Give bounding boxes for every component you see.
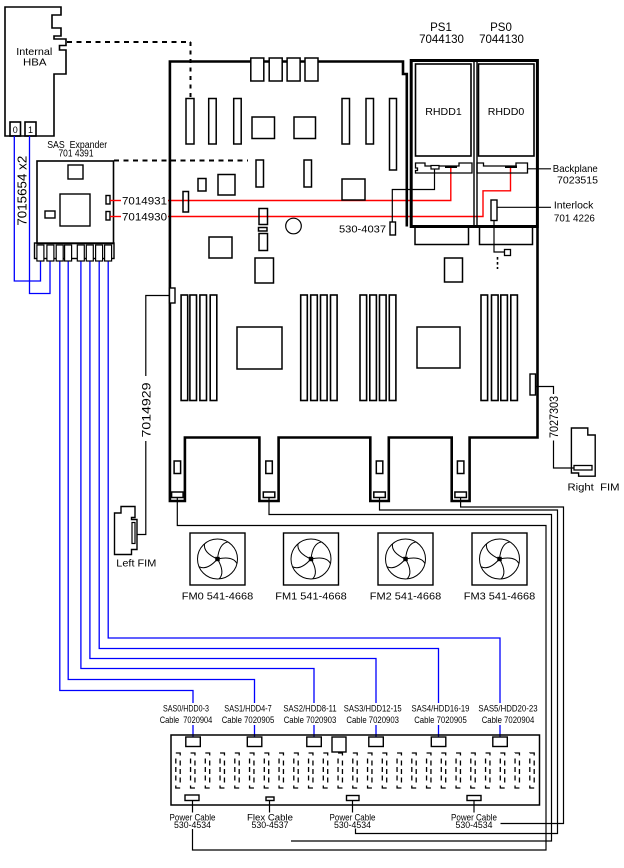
- fan FM3: [472, 533, 527, 585]
- drive slot column 19 (dashed): [456, 753, 460, 788]
- connector 7014929 on mobo edge: [170, 288, 176, 303]
- SAS0 cable label: [160, 704, 213, 726]
- foot 4 component: [457, 461, 464, 474]
- drive slot column 24 (dashed): [530, 753, 534, 788]
- black wire foot1 to power cable 1: [177, 498, 546, 851]
- blue wire expander pin5 to SAS2 connector: [81, 262, 314, 704]
- expander comb pin 1: [37, 245, 44, 261]
- SAS3 connector: [369, 737, 384, 747]
- svg-text:0: 0: [13, 125, 18, 135]
- expander connector J1 (7014931): [106, 196, 110, 205]
- svg-text:1: 1: [28, 125, 33, 135]
- black wire foot4 to power cable 4: [461, 498, 564, 824]
- drive slot column 23 (dashed): [515, 753, 519, 788]
- slot I: [256, 160, 264, 187]
- svg-text:Cable 7020905: Cable 7020905: [222, 715, 275, 725]
- DIMM slot group4-4: [511, 295, 518, 401]
- SAS1 cable label: [222, 704, 275, 726]
- left FIM module: [115, 507, 138, 555]
- drive slot column 8 (dashed): [294, 753, 298, 788]
- SAS3 cable label: [344, 704, 402, 726]
- drive slot column 3 (dashed): [220, 753, 224, 788]
- drive slot column 21 (dashed): [486, 753, 490, 788]
- wire 7014929 to left FIM: [146, 296, 170, 377]
- dashed line expander to motherboard: [114, 160, 248, 162]
- expander left component: [45, 211, 55, 218]
- svg-text:7014929: 7014929: [139, 382, 153, 437]
- RHDD0 tray: [477, 163, 528, 173]
- svg-text:530-4534: 530-4534: [174, 820, 211, 830]
- RHDD1 tray connector (white): [431, 166, 439, 170]
- svg-text:Interlock: Interlock: [554, 200, 594, 212]
- PSU foot box left: [415, 227, 469, 245]
- RHDD1 tray: [416, 163, 473, 173]
- SAS4 cable label: [412, 704, 470, 726]
- svg-text:PS1: PS1: [430, 22, 452, 34]
- svg-text:7014931: 7014931: [122, 196, 167, 208]
- SAS5 cable label: [478, 704, 537, 726]
- RHDD0 drive: [479, 64, 535, 156]
- expander comb pin 8: [105, 245, 112, 261]
- PS1 label: [419, 22, 464, 46]
- drive slot column 17 (dashed): [427, 753, 431, 788]
- disk backplane box: [171, 735, 540, 805]
- vertical slot U6: [390, 99, 397, 171]
- blue wire HBA port0 to expander pin1: [14, 136, 40, 281]
- chip N: [342, 179, 365, 200]
- motherboard outline: [169, 60, 538, 501]
- svg-text:SAS0/HDD0-3: SAS0/HDD0-3: [163, 704, 209, 714]
- label Flex Cable 530-4537: [247, 813, 293, 831]
- chip L2: [209, 237, 232, 258]
- drive slot column 7 (dashed): [279, 753, 283, 788]
- blue wire expander pin6 to SAS3 connector: [90, 262, 376, 704]
- expander comb pin 4: [65, 245, 72, 261]
- backplane aux component: [332, 737, 346, 752]
- DIMM slot group2-4: [331, 295, 338, 401]
- connector 530-4037: [390, 222, 396, 235]
- drive slot column 5 (dashed): [250, 753, 254, 788]
- svg-text:Cable 7020903: Cable 7020903: [284, 715, 337, 725]
- CPU 1: [237, 327, 282, 369]
- drive slot column 6 (dashed): [264, 753, 268, 788]
- svg-text:HBA: HBA: [23, 57, 47, 69]
- internal HBA card outline: [5, 7, 66, 136]
- drive slot column 14 (dashed): [382, 753, 386, 788]
- blue wire SAS0 connector drop: [192, 725, 194, 740]
- flex cable connector: [266, 797, 274, 801]
- expander comb pin 5: [77, 245, 84, 261]
- DIMM slot group3-1: [360, 295, 367, 401]
- drive slot column 12 (dashed): [353, 753, 357, 788]
- drive slot column 15 (dashed): [397, 753, 401, 788]
- DIMM slot group1-4: [210, 295, 217, 401]
- left FIM slot: [132, 523, 135, 544]
- drive slot column 16 (dashed): [412, 753, 416, 788]
- svg-text:SAS2/HDD8-11: SAS2/HDD8-11: [283, 704, 336, 714]
- svg-text:7015654 x2: 7015654 x2: [14, 156, 29, 226]
- component column rect 1: [259, 209, 268, 225]
- expander chip large: [60, 194, 90, 226]
- svg-text:530-4534: 530-4534: [334, 820, 371, 830]
- DIMM slot group2-3: [321, 295, 328, 401]
- RHDD1 tray connector (black bar): [445, 166, 457, 169]
- svg-text:530-4037: 530-4037: [339, 224, 386, 236]
- blue wire expander pin4 to SAS1 connector: [68, 262, 254, 704]
- blue wire HBA port1 to expander pin2: [30, 136, 51, 294]
- svg-text:Backplane: Backplane: [553, 163, 598, 175]
- svg-text:701 4391: 701 4391: [59, 149, 94, 160]
- component column rect 2: [259, 228, 268, 232]
- red wire 7014931 (expander J1 to RHDD1 backplane): [110, 200, 121, 202]
- svg-text:SAS4/HDD16-19: SAS4/HDD16-19: [412, 704, 470, 714]
- internal HBA label: [16, 46, 52, 69]
- interlock label: [554, 200, 595, 225]
- red wire 7014930 (expander J2 to RHDD0 backplane): [110, 216, 121, 218]
- right FIM module: [571, 428, 595, 476]
- svg-text:7014930: 7014930: [122, 212, 167, 224]
- drive slot column 0 (dashed): [176, 753, 180, 788]
- blue wire SAS5 connector drop: [499, 725, 501, 740]
- SAS0 connector: [186, 737, 201, 747]
- top edge connector 2: [269, 58, 282, 81]
- DIMM slot group1-1: [181, 295, 188, 401]
- foot 2 connector: [263, 492, 275, 498]
- expander comb pin 3: [56, 245, 63, 261]
- wire 7027303 to right FIM: [536, 387, 554, 395]
- slot J: [304, 160, 312, 187]
- top edge connector 4: [305, 58, 318, 81]
- DIMM slot group1-2: [190, 295, 197, 401]
- svg-text:FM0 541-4668: FM0 541-4668: [182, 591, 254, 603]
- drive slot column 4 (dashed): [235, 753, 239, 788]
- svg-text:FM3 541-4668: FM3 541-4668: [464, 591, 536, 603]
- svg-text:701 4226: 701 4226: [554, 213, 595, 225]
- black wire foot3 to power cable 3: [356, 498, 558, 834]
- fan FM0: [190, 533, 245, 585]
- interlock dashed stub: [497, 257, 499, 269]
- foot 3 component: [376, 461, 383, 474]
- fan FM1: [284, 533, 339, 585]
- PS0 label: [479, 22, 524, 46]
- blue wire SAS2 connector drop: [313, 725, 315, 740]
- small component K: [198, 179, 206, 192]
- drive slot column 9 (dashed): [309, 753, 313, 788]
- vertical slot U4: [342, 99, 350, 145]
- vertical slot U2: [209, 99, 217, 145]
- expander comb connector body: [35, 243, 115, 259]
- drive slot column 11 (dashed): [338, 753, 342, 788]
- chip right area: [445, 258, 463, 282]
- vertical slot U1: [186, 99, 194, 145]
- interlock wire: [494, 221, 504, 253]
- SAS expander label: [47, 140, 108, 160]
- drive slot column 22 (dashed): [500, 753, 504, 788]
- dashed wire HBA to motherboard (vertical drop): [190, 42, 192, 98]
- HBA port 0: [10, 122, 21, 136]
- expander comb pin 7: [96, 245, 103, 261]
- blue wire SAS4 connector drop: [438, 725, 440, 740]
- CPU 2: [417, 327, 460, 368]
- foot 4 connector: [455, 492, 467, 498]
- backplane label: [553, 163, 598, 187]
- expander comb pin 2: [47, 245, 54, 261]
- SAS4 connector: [431, 737, 446, 747]
- svg-text:SAS5/HDD20-23: SAS5/HDD20-23: [478, 704, 537, 714]
- DIMM slot group4-3: [501, 295, 508, 401]
- svg-text:Cable 7020904: Cable 7020904: [482, 715, 535, 725]
- drive slot column 1 (dashed): [191, 753, 195, 788]
- chip below column: [255, 258, 274, 283]
- svg-text:Right FIM: Right FIM: [568, 483, 620, 494]
- expander comb pin 6: [86, 245, 93, 261]
- black wire RHDD1 to mobo connector: [392, 169, 434, 222]
- svg-text:7027303: 7027303: [549, 396, 561, 438]
- drive slot column 18 (dashed): [441, 753, 445, 788]
- DIMM slot group3-3: [380, 295, 387, 401]
- svg-text:Cable 7020903: Cable 7020903: [346, 715, 399, 725]
- SAS1 connector: [247, 737, 261, 747]
- svg-text:RHDD1: RHDD1: [425, 106, 462, 118]
- chip E: [294, 117, 316, 139]
- foot 1 component: [174, 461, 181, 474]
- label Power Cable 530-4534: [170, 813, 216, 831]
- DIMM slot group4-1: [481, 295, 488, 401]
- interlock wire terminal square: [505, 250, 511, 256]
- top edge connector 3: [287, 58, 300, 81]
- svg-text:Cable 7020905: Cable 7020905: [414, 715, 467, 725]
- DIMM slot group4-2: [492, 295, 499, 401]
- interlock label pointer: [497, 206, 551, 208]
- svg-text:530-4537: 530-4537: [252, 820, 289, 830]
- PSU divider: [473, 61, 475, 227]
- blue wire expander pin7 to SAS4 connector: [99, 262, 438, 704]
- label Power Cable 530-4534: [451, 813, 497, 831]
- PSU foot box right: [480, 227, 533, 245]
- svg-text:Cable 7020904: Cable 7020904: [160, 715, 213, 725]
- PSU enclosure: [411, 61, 537, 227]
- drive slot column 10 (dashed): [323, 753, 327, 788]
- label Power Cable 530-4534: [330, 813, 376, 831]
- interlock component: [491, 200, 497, 221]
- blue wire expander pin8 to SAS5 connector: [108, 262, 500, 704]
- drive slot column 2 (dashed): [205, 753, 209, 788]
- DIMM slot group3-2: [370, 295, 377, 401]
- RHDD0 tray connector (black bar): [505, 166, 517, 169]
- foot 3 connector: [374, 492, 386, 498]
- svg-text:7044130: 7044130: [419, 34, 464, 46]
- svg-text:Left FIM: Left FIM: [116, 559, 156, 570]
- backplane label pointer: [528, 168, 552, 170]
- black wire foot2 to flex cable: [269, 498, 552, 842]
- vertical slot U3: [234, 99, 242, 145]
- DIMM slot group2-1: [301, 295, 308, 401]
- DIMM slot group3-4: [389, 295, 396, 401]
- foot 2 component: [266, 461, 273, 474]
- SAS expander 701 4391 box: [37, 161, 114, 244]
- svg-text:7044130: 7044130: [479, 34, 524, 46]
- DIMM slot group2-2: [311, 295, 318, 401]
- right FIM slot: [574, 466, 592, 471]
- power cable connector 4: [467, 796, 481, 801]
- SAS2 connector: [307, 737, 322, 747]
- SAS2 cable label: [283, 704, 336, 726]
- top edge connector 1: [251, 58, 264, 81]
- svg-text:PS0: PS0: [490, 22, 512, 34]
- svg-text:RHDD0: RHDD0: [488, 106, 525, 118]
- component column rect 3: [259, 234, 268, 251]
- fan FM2: [378, 533, 433, 585]
- svg-text:SAS3/HDD12-15: SAS3/HDD12-15: [344, 704, 402, 714]
- battery circle: [286, 218, 302, 234]
- blue wire expander pin3 to SAS0 connector: [60, 262, 193, 704]
- RHDD1 drive: [416, 64, 472, 156]
- small slot M: [183, 192, 189, 213]
- svg-text:530-4534: 530-4534: [456, 820, 493, 830]
- expander connector J2 (7014930): [106, 212, 110, 221]
- HBA port 1: [25, 122, 36, 136]
- svg-text:FM1 541-4668: FM1 541-4668: [275, 591, 347, 603]
- SAS5 connector: [493, 737, 508, 747]
- drive slot column 13 (dashed): [368, 753, 372, 788]
- vertical slot U5: [366, 99, 374, 145]
- chip L: [218, 175, 235, 196]
- DIMM slot group1-3: [200, 295, 207, 401]
- svg-text:FM2 541-4668: FM2 541-4668: [370, 591, 442, 603]
- svg-text:7023515: 7023515: [557, 175, 598, 187]
- foot 1 connector: [172, 492, 184, 498]
- power cable connector 3: [347, 796, 360, 801]
- expander chip small: [68, 165, 83, 179]
- chip D: [252, 117, 275, 139]
- drive slot column 20 (dashed): [471, 753, 475, 788]
- connector 7027303 on mobo edge: [530, 374, 536, 395]
- blue wire SAS1 connector drop: [254, 725, 256, 740]
- power cable connector 1: [185, 795, 199, 801]
- dashed wire HBA to motherboard (horizontal): [67, 41, 191, 43]
- blue wire SAS3 connector drop: [375, 725, 377, 740]
- svg-text:SAS1/HDD4-7: SAS1/HDD4-7: [224, 704, 271, 714]
